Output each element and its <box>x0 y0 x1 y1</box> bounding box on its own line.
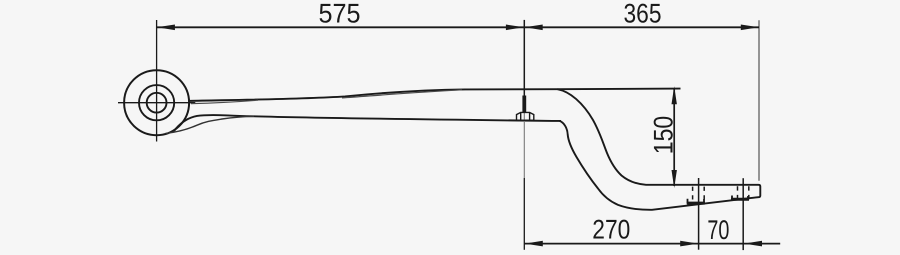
arrow 575 right <box>506 25 524 31</box>
150 dimension vertical line <box>673 88 675 186</box>
eye outer circle <box>124 70 189 135</box>
arrow 270 left <box>525 241 543 247</box>
arrow 365 right <box>741 25 759 31</box>
svg-text:150: 150 <box>648 116 678 155</box>
svg-text:270: 270 <box>592 214 630 244</box>
center bolt head <box>517 112 534 120</box>
arrow 150 top <box>672 86 677 104</box>
arrow 575 left <box>157 25 175 31</box>
eye bushing inner circle <box>147 93 167 113</box>
bottom dimension line (270 + 70) <box>524 243 780 245</box>
leaf bottom wrap line W (lower edge from eye) <box>166 116 255 133</box>
leaf top secondary edge line near eye <box>191 100 258 103</box>
leaf top line T1 (from eye to rear, extends as 150-dim top extension) <box>188 89 680 101</box>
leaf bottom line B (upper edge) <box>174 115 561 131</box>
eye crosshair vertical / 575 left extension line <box>156 20 158 142</box>
eye crosshair horizontal <box>118 102 195 104</box>
right extension line x=759 (365 dim) <box>758 20 760 180</box>
extension line at x=698 (270/70 dims, through hole 1 center) <box>698 178 700 250</box>
eye bushing outer circle <box>139 85 174 120</box>
leaf top secondary taper line (rear half) <box>342 90 462 98</box>
svg-text:70: 70 <box>707 215 729 245</box>
center bolt centerline (gray, through leaf and below) <box>523 112 525 178</box>
hole 1 bottom seat mark <box>687 199 705 203</box>
svg-text:365: 365 <box>624 0 662 28</box>
top dimension line (575 + 365) <box>157 26 759 28</box>
hole 1 hidden line right <box>703 187 705 203</box>
arrow 70 right (outside) <box>744 241 762 247</box>
hole 2 hidden line left <box>737 186 739 199</box>
center bolt stub above head <box>522 96 526 113</box>
hole 2 hidden line right <box>748 186 750 199</box>
hole 1 hidden line left <box>692 187 694 203</box>
arrow 365 left <box>525 25 543 31</box>
center bolt centerline / 270 left extension line (lower part) <box>523 178 525 250</box>
arrow 150 bottom <box>672 170 677 188</box>
rear S-bend outline (right curve, tail, right end, bottom, left curve) <box>558 89 761 210</box>
center bolt centerline / extension line (upper part) <box>523 20 525 97</box>
hole 2 bottom seat mark <box>732 196 748 200</box>
svg-text:575: 575 <box>319 0 361 28</box>
extension line at x=743.2 (70 dim, through hole 2 center) <box>742 178 744 250</box>
arrow 270 right <box>680 241 698 247</box>
